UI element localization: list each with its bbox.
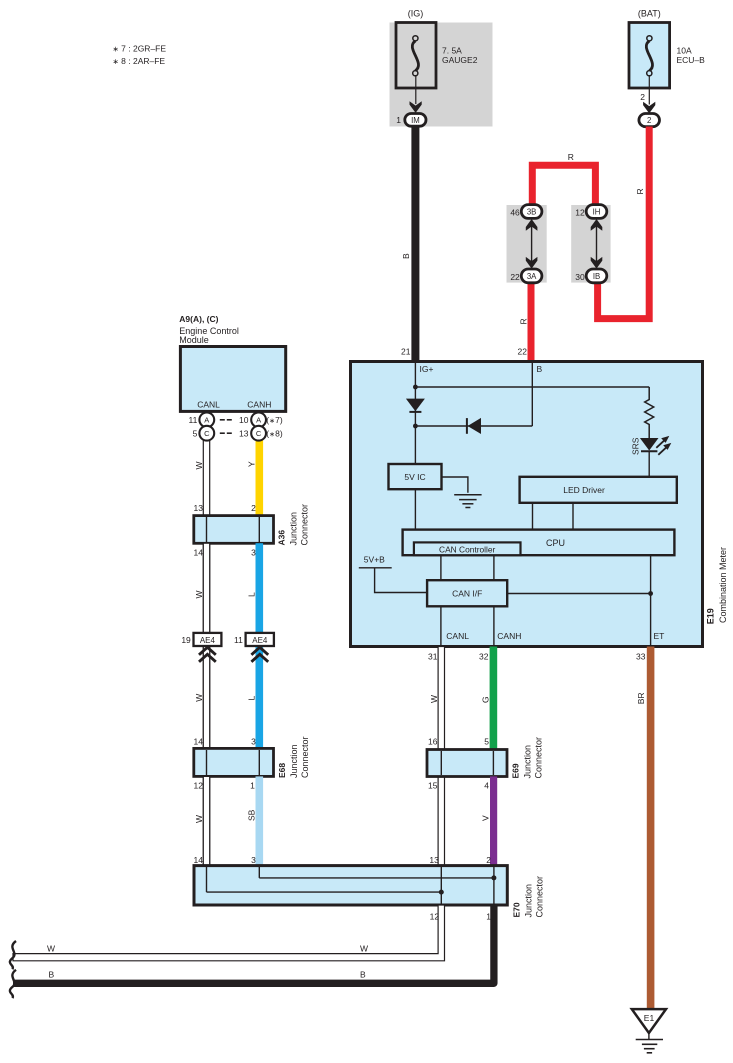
svg-text:22: 22 [510,272,520,282]
svg-text:BR: BR [636,692,646,704]
svg-text:AE4: AE4 [200,636,216,645]
fuse GAUGE2 element [412,36,418,76]
wire W A36 to E68 [203,543,209,749]
svg-text:1: 1 [396,115,401,125]
svg-text:∗ 8 : 2AR–FE: ∗ 8 : 2AR–FE [113,56,166,66]
svg-text:CAN I/F: CAN I/F [452,589,482,599]
wire fuse to IM [415,76,417,104]
svg-text:W: W [47,943,55,953]
arrow link IH-IB [591,219,603,269]
node junction [413,385,418,390]
svg-text:(BAT): (BAT) [638,9,661,19]
svg-text:R: R [568,152,574,162]
CPU box [403,530,675,556]
diode D2 [467,418,481,434]
node junction [648,591,653,596]
svg-text:3: 3 [251,855,256,865]
wire V E69 to E70 [490,776,497,865]
wire B E70 to left [13,905,494,983]
terminal 2 [639,114,660,127]
svg-text:L: L [246,592,256,597]
svg-text:Junction: Junction [523,745,533,779]
svg-text:ECU–B: ECU–B [677,55,706,65]
svg-text:Connector: Connector [534,737,544,779]
svg-text:C: C [256,429,262,438]
fuse ECU-B box [629,23,670,89]
svg-text:Connector: Connector [535,876,545,918]
svg-text:W: W [194,461,204,469]
svg-text:Junction: Junction [524,884,534,918]
wire B vertical [531,362,533,427]
wire W from ECM CANL [203,433,209,866]
svg-text:Junction: Junction [289,744,299,778]
svg-text:R: R [518,318,528,324]
resistor [645,387,654,438]
arrow into IM [410,101,422,113]
svg-text:C: C [204,429,210,438]
terminal 3B [521,205,542,219]
svg-text:14: 14 [194,855,204,865]
svg-text:10: 10 [239,415,249,425]
svg-text:Module: Module [179,335,209,345]
svg-text:13: 13 [194,503,204,513]
svg-text:CANL: CANL [446,631,469,641]
svg-text:32: 32 [479,651,489,661]
IG fuse shaded area [390,23,493,127]
junction connector E68 [194,748,274,776]
terminal C right [251,426,266,441]
continuation squiggle B [10,970,16,998]
wire B (black) IM to pin21 [411,126,419,362]
svg-text:7. 5A: 7. 5A [442,46,462,56]
label E70 Junction Connector [512,876,545,918]
ground E1 [632,1009,666,1053]
ground [454,495,481,508]
wire R from terminal 2 to IB [598,127,650,319]
svg-text:15: 15 [428,781,438,791]
svg-text:(∗8): (∗8) [266,429,283,439]
wire W CANL meter to E70 [438,647,444,866]
wire driver to CPU 1 [532,503,534,530]
svg-text:22: 22 [518,347,528,357]
svg-text:CANH: CANH [497,631,521,641]
svg-text:11: 11 [234,635,243,645]
svg-text:3: 3 [251,547,256,557]
svg-text:E19: E19 [705,608,715,624]
svg-text:19: 19 [181,635,191,645]
terminal IH [586,205,607,219]
5V+B supply symbol [359,568,427,593]
arrow link 3B-3A [526,219,538,269]
chevrons right [251,647,268,662]
svg-text:1: 1 [250,781,255,791]
wire to resistor [415,386,649,388]
terminal IM [405,114,426,127]
wire BR ET meter to E1 [647,647,655,1011]
svg-text:30: 30 [575,272,585,282]
label E69 Junction Connector [511,737,544,779]
svg-text:L: L [246,696,256,701]
chevrons left [199,647,216,662]
wire LED to driver [648,451,650,477]
svg-text:IM: IM [411,116,420,125]
svg-text:W: W [429,695,439,703]
connector pair IH-IB shaded [571,205,610,283]
svg-text:IG+: IG+ [420,364,434,374]
LED SRS [640,436,671,455]
svg-text:5V+B: 5V+B [364,555,385,565]
svg-text:∗ 7 : 2GR–FE: ∗ 7 : 2GR–FE [113,44,167,54]
wire R from IH to 3B [532,165,595,206]
wire W E70 to left [13,905,445,961]
svg-text:W: W [194,590,204,598]
svg-text:AE4: AE4 [252,636,268,645]
svg-text:Connector: Connector [300,736,310,778]
terminal IB [586,269,607,283]
svg-text:IH: IH [593,208,601,217]
svg-text:Y: Y [246,461,256,467]
wire IG+ vertical [414,362,416,465]
wire ctrl to IF 1 [440,555,442,580]
svg-text:2: 2 [647,116,651,125]
svg-text:B: B [401,253,411,259]
CAN I/F box [427,580,507,606]
wire to ground [442,477,468,493]
wire IF to CANL pin [440,606,442,646]
svg-text:3A: 3A [527,272,537,281]
junction connector E70 [194,866,507,905]
svg-text:CAN Controller: CAN Controller [439,545,496,555]
wire G CANH meter to E69 [490,647,498,750]
wire Y from ECM CANH [256,437,264,516]
terminal 3A [521,269,542,283]
svg-text:4: 4 [484,781,489,791]
wire driver to CPU 2 [572,503,574,530]
connector pair 3B-3A shaded [507,205,547,283]
terminal A right [251,412,266,427]
svg-text:E69: E69 [511,763,521,778]
svg-text:LED Driver: LED Driver [563,485,605,495]
svg-text:3: 3 [251,737,256,747]
svg-text:14: 14 [194,547,204,557]
svg-text:SRS: SRS [630,437,640,455]
wire ctrl to IF 2 [493,555,495,580]
continuation squiggle W [10,941,16,969]
combination meter box E19 [351,362,703,647]
svg-text:14: 14 [194,737,204,747]
svg-text:CANH: CANH [247,399,271,409]
wire fuse to 2 [648,76,650,105]
svg-text:ET: ET [654,631,665,641]
junction connector E69 [427,750,507,777]
svg-text:(IG): (IG) [408,9,424,19]
svg-text:A: A [256,416,261,425]
svg-text:33: 33 [636,651,646,661]
svg-text:A9(A), (C): A9(A), (C) [179,314,218,324]
wire B to diode [415,425,532,427]
terminal A left [199,412,214,427]
wire IF to CANH pin [493,606,495,646]
node junction [413,424,418,429]
svg-text:13: 13 [429,855,439,865]
svg-text:G: G [481,696,491,703]
svg-text:3B: 3B [527,208,537,217]
svg-text:W: W [360,943,368,953]
wire 5VIC to CPU [414,489,416,529]
svg-text:2: 2 [486,855,491,865]
svg-text:W: W [194,694,204,702]
wire R from 3A to pin22 [528,281,535,362]
label E19 Combination Meter [705,547,728,624]
wire SB E68 to E70 [256,776,264,865]
svg-text:E70: E70 [512,902,522,917]
arrow into 2 [643,102,655,114]
label A36 Junction Connector [277,504,310,546]
junction connector A36 [194,516,274,544]
svg-text:21: 21 [401,347,411,357]
svg-text:10A: 10A [677,46,692,56]
ECM box [180,347,285,412]
svg-text:2: 2 [640,92,645,102]
svg-text:A: A [204,416,209,425]
svg-text:B: B [49,970,55,980]
svg-text:46: 46 [510,208,520,218]
CAN controller box [414,542,521,555]
shield connector AE4 right [246,633,274,646]
svg-text:A36: A36 [277,530,287,546]
svg-text:IB: IB [593,272,600,281]
fuse GAUGE2 box [396,23,436,89]
svg-text:Combination Meter: Combination Meter [718,547,728,623]
svg-text:5: 5 [484,736,489,746]
svg-text:CANL: CANL [197,399,220,409]
svg-text:B: B [360,970,366,980]
svg-text:(∗7): (∗7) [266,415,283,425]
wire L A36 to E68 [256,543,264,748]
svg-text:R: R [635,188,645,194]
svg-text:11: 11 [188,415,197,425]
svg-text:12: 12 [575,208,585,218]
svg-text:W: W [194,815,204,823]
svg-text:E1: E1 [644,1013,655,1023]
svg-text:5V IC: 5V IC [404,472,425,482]
svg-text:31: 31 [428,651,438,661]
svg-text:Connector: Connector [300,504,310,546]
svg-text:GAUGE2: GAUGE2 [442,55,478,65]
svg-text:E68: E68 [277,763,287,778]
svg-text:Junction: Junction [289,512,299,546]
svg-text:B: B [537,364,543,374]
label E68 Junction Connector [277,736,310,778]
svg-text:16: 16 [428,736,438,746]
svg-text:5: 5 [193,429,198,439]
wire IF to ET [507,593,650,595]
wire CPU to ET pin [650,555,652,646]
svg-text:SB: SB [246,809,256,821]
wire W E68 to E70 [203,776,209,865]
svg-text:2: 2 [251,503,256,513]
svg-text:13: 13 [239,429,249,439]
svg-text:V: V [481,815,491,821]
dashes row A [220,420,232,433]
IC 5V box [389,464,442,489]
fuse ECU-B element [646,36,652,76]
terminal C left [199,426,214,441]
svg-text:CPU: CPU [546,538,565,548]
LED driver box [520,477,677,503]
shield connector AE4 left [194,633,222,646]
svg-text:12: 12 [194,781,204,791]
diode D1 [406,399,425,412]
